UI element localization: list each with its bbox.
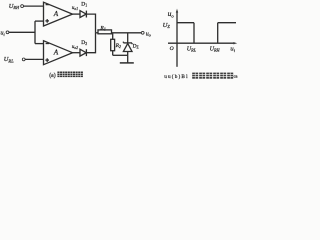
wire rail to R2: [112, 33, 114, 40]
wire R1 to output node: [112, 32, 142, 34]
svg-text:ca: ca: [234, 74, 238, 79]
curve high segment right: [218, 22, 236, 24]
wire D2 to bus: [86, 33, 95, 53]
node URH terminal: [21, 5, 24, 8]
svg-text:uo: uo: [146, 31, 151, 37]
svg-text:uu(b)Bl: uu(b)Bl: [164, 73, 189, 80]
wire A2 output to D2: [73, 52, 81, 54]
wire URL to A2 plus input: [25, 58, 44, 60]
curve drop at URL: [193, 23, 195, 44]
node URL terminal: [22, 58, 25, 61]
resistor R2: [111, 39, 115, 50]
pin plus A2: [45, 59, 49, 61]
resistor R1: [98, 30, 112, 34]
wire bottom R2 to DZ: [113, 54, 128, 56]
wire URH to op-amp A1 inverting input: [23, 5, 43, 7]
wire DZ to ground: [127, 52, 129, 63]
zener diode DZ: [123, 42, 132, 44]
wire branch to A1 plus input: [35, 20, 44, 22]
pin minus A1: [46, 4, 50, 6]
svg-text:O: O: [170, 46, 174, 52]
curve high segment left: [177, 22, 194, 24]
node ui terminal: [6, 31, 9, 34]
svg-text:A: A: [53, 49, 59, 57]
svg-text:(a): (a): [49, 72, 56, 79]
wire ui branch vertical: [34, 21, 36, 43]
svg-text:URL: URL: [187, 46, 197, 52]
caption (a) window comparator: [49, 72, 83, 80]
curve rise at URH: [217, 23, 219, 44]
ground: [120, 62, 134, 64]
caption (b) voltage transfer characteristic: [164, 73, 237, 80]
op-amp A1: [44, 2, 73, 26]
svg-text:ui: ui: [1, 31, 5, 37]
op-amp A2: [44, 41, 73, 65]
wire R2 to bottom: [112, 51, 114, 56]
wire D1 to bus: [86, 14, 95, 33]
wire rail to DZ: [127, 33, 129, 43]
wire bus to R1: [96, 32, 99, 34]
diode D2: [80, 49, 86, 56]
wire ui to branch: [9, 31, 35, 33]
svg-text:A: A: [53, 10, 59, 18]
diode D1: [80, 11, 86, 18]
pin minus A2: [46, 43, 50, 45]
pin plus A1: [45, 20, 49, 22]
graph y-axis: [176, 11, 178, 67]
svg-text:URH: URH: [210, 46, 221, 52]
wire A1 output to D1: [73, 13, 81, 15]
wire branch to A2 inverting input: [35, 43, 44, 45]
graph x-axis: [168, 42, 235, 44]
node uo terminal: [141, 31, 144, 34]
